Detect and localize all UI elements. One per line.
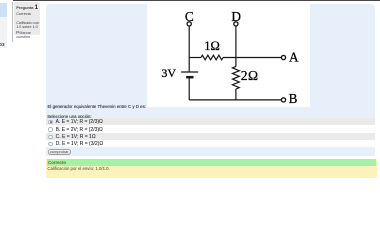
- node D terminal circle: [234, 22, 238, 26]
- option D label: [56, 141, 103, 147]
- svg-text:D: D: [231, 9, 241, 24]
- battery V1 long plate: [181, 71, 198, 73]
- node B terminal circle: [281, 98, 285, 102]
- prompt text: [47, 114, 91, 119]
- image background: [147, 2, 310, 107]
- radio B: [48, 127, 52, 131]
- option C row (grey): [46, 133, 375, 140]
- grade text: [47, 166, 109, 171]
- left nav: blue button fragment: [0, 3, 7, 17]
- wire C to battery: [188, 26, 190, 72]
- svg-text:B: B: [289, 91, 298, 106]
- correct feedback bar (green): [47, 159, 377, 165]
- battery V1 short thick plate: [186, 76, 193, 79]
- svg-text:A: A: [289, 50, 299, 65]
- option C label: [56, 134, 96, 140]
- question text: [48, 104, 147, 109]
- wire 2 ohm to bottom rail: [235, 89, 237, 100]
- grade feedback bar (yellow): [46, 159, 377, 178]
- resistor 2 ohm zigzag: [232, 66, 239, 88]
- answer options block: [46, 118, 375, 148]
- left nav: grey block fragment: [0, 17, 7, 49]
- radio D: [48, 142, 52, 146]
- question info box: [14, 2, 39, 35]
- circuit schematic image (white box): [147, 2, 310, 107]
- svg-text:3V: 3V: [161, 66, 176, 80]
- wire D through top rail: [235, 26, 237, 66]
- bottom rail: [189, 99, 281, 101]
- wire battery to bottom rail: [188, 78, 190, 99]
- option A row (grey): [46, 118, 375, 125]
- svg-text:1Ω: 1Ω: [204, 39, 220, 53]
- top rail right segment to A: [223, 56, 281, 58]
- svg-text:C: C: [185, 9, 194, 24]
- left nav: vertical border line: [11, 2, 14, 42]
- radio A selected: [48, 120, 52, 124]
- top rail left segment: [189, 56, 201, 58]
- svg-text:2Ω: 2Ω: [241, 68, 259, 83]
- node C terminal circle: [187, 22, 191, 26]
- option B label: [56, 127, 103, 133]
- left nav: cropped text 03: [0, 42, 5, 47]
- comprobar button: [48, 149, 71, 155]
- option A label: [56, 119, 103, 125]
- top dark bar: [13, 0, 380, 1]
- resistor 1 ohm zigzag: [201, 55, 223, 60]
- main question panel (pale blue): [46, 4, 375, 156]
- radio C: [48, 135, 52, 139]
- node A terminal circle: [281, 55, 285, 59]
